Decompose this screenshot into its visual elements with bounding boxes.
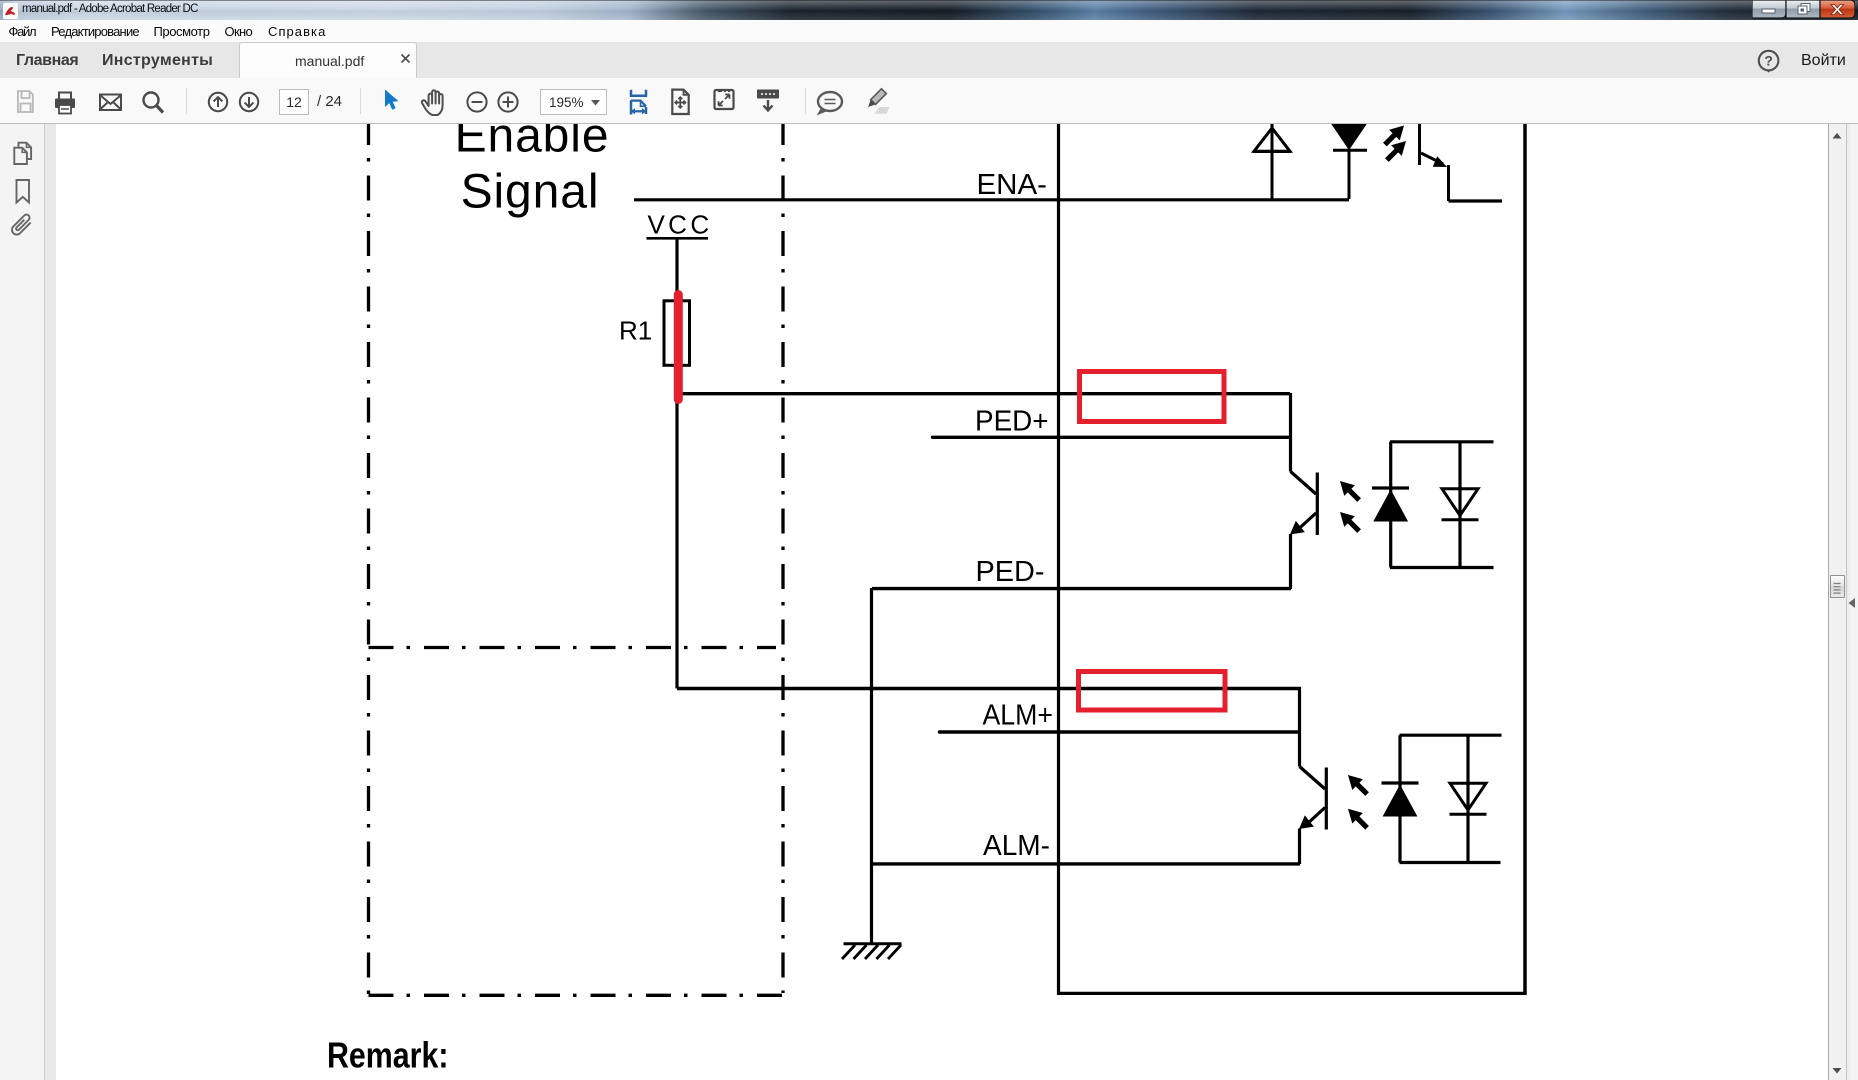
svg-text:Remark:: Remark: bbox=[327, 1035, 449, 1076]
svg-text:?: ? bbox=[1764, 53, 1773, 69]
svg-text:ALM+: ALM+ bbox=[983, 700, 1054, 732]
svg-text:Signal: Signal bbox=[461, 166, 600, 219]
svg-text:Enable: Enable bbox=[455, 124, 610, 163]
svg-text:R1: R1 bbox=[619, 316, 652, 346]
svg-text:ALM-: ALM- bbox=[983, 830, 1050, 862]
svg-text:PED+: PED+ bbox=[975, 406, 1049, 438]
svg-text:VCC: VCC bbox=[647, 210, 712, 240]
svg-text:PED-: PED- bbox=[976, 556, 1045, 588]
svg-text:ENA-: ENA- bbox=[977, 169, 1048, 201]
